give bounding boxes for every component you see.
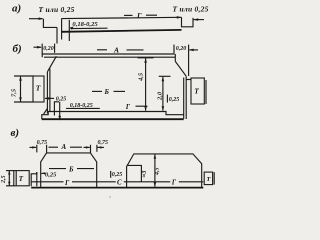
- dim 0,25 right tick: [166, 95, 168, 103]
- svg-text:0,75: 0,75: [37, 140, 48, 146]
- dash left of A fig v: [49, 146, 59, 148]
- svg-text:б): б): [13, 43, 22, 55]
- bracket at lower-left step: [54, 102, 59, 116]
- right 0,20 dimension arrow: [189, 49, 198, 51]
- svg-text:А: А: [113, 46, 119, 55]
- svg-text:2,5: 2,5: [1, 176, 7, 185]
- svg-text:0,18-0,25: 0,18-0,25: [72, 21, 98, 28]
- dim 0,25 lower-left arrow: [45, 97, 54, 99]
- dim 4,5 line with arrows: [145, 58, 147, 110]
- left 0,75 extension lines: [36, 145, 38, 153]
- svg-text:0,75: 0,75: [98, 140, 109, 146]
- box T left fig v: [14, 171, 29, 186]
- right trapezoid outline: [127, 154, 202, 188]
- svg-text:Г: Г: [64, 179, 70, 187]
- box T right fig v: [204, 172, 212, 185]
- svg-text:≈3: ≈3: [141, 170, 148, 178]
- dash right of G: [146, 14, 157, 16]
- box right double edge fig v: [213, 172, 215, 185]
- svg-text:Т: Т: [19, 175, 24, 183]
- connector wall to box: [186, 79, 191, 81]
- left step of plate: [43, 19, 57, 28]
- svg-text:Т: Т: [36, 84, 41, 93]
- right 0,20 extension lines: [173, 45, 175, 54]
- right end vertical of bar: [174, 54, 176, 61]
- leader line under 0,18-0,25: [70, 27, 107, 29]
- dim 4,5 right trap line: [154, 154, 156, 186]
- right 0,75 extension lines: [90, 145, 92, 153]
- left 0,75 arrow: [30, 146, 37, 148]
- dim 0,25 mid tick: [110, 171, 112, 178]
- stub left of plate: [31, 172, 37, 186]
- dim 7,5 line with arrows: [20, 76, 22, 102]
- svg-text:А: А: [61, 143, 67, 151]
- box left inner edge: [15, 171, 17, 186]
- svg-text:7,5: 7,5: [11, 88, 18, 97]
- extension with down arrow: [59, 102, 61, 120]
- plate bottom edge: [62, 30, 182, 32]
- svg-text:а): а): [12, 3, 21, 15]
- speck: [109, 196, 110, 197]
- right 0,75 arrow inner: [84, 146, 90, 148]
- svg-text:Т или 0,25: Т или 0,25: [173, 5, 209, 14]
- right flare chamfer: [175, 61, 186, 76]
- dash right of B fig v: [77, 168, 94, 170]
- inner step bracket right trap: [127, 165, 142, 181]
- svg-text:Г: Г: [171, 179, 177, 187]
- extension line at groove: [68, 20, 70, 41]
- left wall inner line: [49, 69, 51, 112]
- dim 2,0 top tick: [159, 75, 171, 77]
- dash left of A: [97, 49, 107, 51]
- left flare chamfer: [47, 56, 56, 72]
- svg-text:Т: Т: [194, 87, 199, 96]
- dim 2,5 ticks: [6, 170, 15, 172]
- dim 0,25 left trap arrow: [41, 172, 45, 174]
- svg-text:С: С: [117, 179, 122, 187]
- bottom bar top edge with steps: [42, 112, 184, 120]
- bottom bar bottom edge fig v: [31, 187, 203, 189]
- svg-text:Б: Б: [68, 166, 74, 174]
- dim 7,5 extension ticks: [14, 75, 33, 77]
- svg-text:0,25: 0,25: [45, 172, 57, 179]
- label G left trap: [64, 179, 73, 187]
- dash right of G fig b: [136, 105, 148, 107]
- plate left edge line: [61, 18, 63, 39]
- label C mid: [116, 179, 124, 187]
- riser box T left: [33, 76, 44, 102]
- right step of plate: [182, 17, 194, 27]
- bottom bar bottom edge: [42, 118, 184, 120]
- svg-text:4,5: 4,5: [138, 72, 145, 82]
- dim 2,5 line with arrows: [8, 171, 10, 186]
- plate top edge: [62, 17, 182, 18]
- bottom bar top edge fig v: [31, 181, 203, 183]
- svg-text:0,20: 0,20: [176, 46, 187, 52]
- svg-text:4,5: 4,5: [154, 168, 160, 177]
- dash left of G: [124, 14, 133, 16]
- extension line below left step: [56, 27, 58, 43]
- left trapezoid outline: [41, 153, 97, 188]
- svg-text:0,20: 0,20: [43, 46, 54, 52]
- right dimension arrow: [194, 19, 204, 21]
- left bottom flare: [44, 109, 48, 115]
- right 0,75 outer arrow: [98, 146, 105, 148]
- right wall inner line: [183, 78, 185, 119]
- label G right trap: [170, 179, 179, 187]
- box right double edge: [205, 80, 207, 104]
- right wall outer line: [185, 76, 187, 119]
- svg-text:Г: Г: [125, 103, 131, 111]
- dash left of B fig v: [49, 168, 66, 170]
- leader under 0,18-0,25: [66, 107, 100, 109]
- dash right of A fig v: [70, 146, 82, 148]
- svg-text:в): в): [11, 127, 20, 139]
- dash right of A: [127, 49, 144, 51]
- left wall outer line: [46, 72, 48, 114]
- svg-text:Б: Б: [104, 88, 110, 96]
- dim 2,0 line with arrows: [162, 77, 164, 111]
- dash left of B: [92, 90, 102, 92]
- left 0,20 extension lines: [41, 44, 43, 54]
- svg-text:0,25: 0,25: [169, 97, 180, 103]
- svg-text:0,25: 0,25: [112, 172, 123, 178]
- svg-text:Т или 0,25: Т или 0,25: [39, 5, 75, 14]
- top bar surface A: [42, 54, 174, 57]
- svg-text:Г: Г: [136, 11, 142, 20]
- left dimension arrow: [29, 18, 43, 20]
- svg-text:2,0: 2,0: [156, 91, 163, 101]
- dash right of B: [114, 90, 126, 92]
- dim 4,5 top tick: [138, 57, 154, 59]
- left 0,20 dimension arrow: [34, 46, 42, 48]
- riser box T right: [191, 78, 204, 104]
